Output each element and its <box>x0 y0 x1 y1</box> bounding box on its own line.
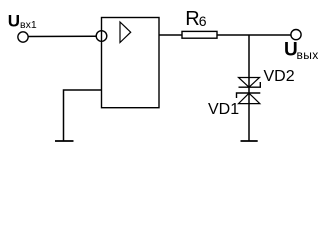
label U_vyx <box>284 40 319 63</box>
svg-text:R: R <box>185 8 199 30</box>
svg-text:6: 6 <box>199 13 207 29</box>
svg-text:U: U <box>8 11 20 30</box>
svg-text:вх1: вх1 <box>20 19 37 31</box>
op-amp input pin circle <box>96 31 107 42</box>
op-amp U1 box <box>102 18 160 108</box>
label R6 <box>185 8 207 30</box>
label U_vx1 <box>8 11 37 31</box>
zener diode VD2 (triangle down + cathode bar hooked right-up) <box>239 78 261 88</box>
input terminal circle <box>18 32 28 42</box>
second op-amp input wire <box>64 90 102 141</box>
svg-text:VD1: VD1 <box>208 101 239 118</box>
resistor R6 body <box>182 31 217 38</box>
node junction wire down (diode branch) <box>248 35 250 141</box>
wire resistor to output node <box>217 34 291 36</box>
wire op-amp output to resistor <box>159 34 182 36</box>
ground bar under second input <box>55 140 74 142</box>
wire input to op-amp <box>28 35 96 37</box>
svg-text:VD2: VD2 <box>264 68 295 85</box>
op-amp triangle symbol <box>120 22 131 43</box>
ground bar under diode branch <box>241 140 258 142</box>
zener diode VD1 (cathode bar hooked left-down + triangle up) <box>237 93 261 104</box>
output terminal circle <box>291 29 301 39</box>
svg-text:вых: вых <box>297 48 319 62</box>
